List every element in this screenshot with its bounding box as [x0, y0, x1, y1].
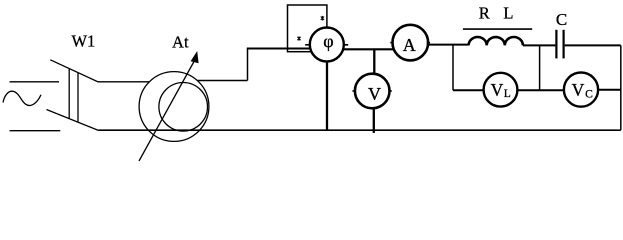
svg-text:V: V [368, 84, 381, 104]
wire capacitor to right edge [565, 44, 621, 46]
polarity asterisk upper-right [321, 16, 324, 21]
voltmeter V circle [355, 74, 390, 109]
transformer W1 core line 1 [68, 69, 70, 119]
voltmeter V top stem [373, 49, 375, 74]
svg-text:C: C [585, 88, 593, 100]
wire phase meter to ammeter [343, 48, 395, 50]
wire At output to step [197, 80, 247, 82]
wire VL to VC [517, 89, 565, 91]
bottom bus wire [98, 129, 620, 131]
svg-text:L: L [504, 88, 511, 100]
source bottom wire [10, 130, 61, 132]
wire to VL meter [453, 89, 485, 91]
svg-text:φ: φ [323, 31, 333, 51]
wire step to phase meter [247, 48, 311, 50]
svg-text:V: V [491, 80, 504, 100]
autotransformer At outer circle [139, 72, 209, 142]
wire ammeter to coil [428, 44, 469, 46]
source top wire [10, 81, 60, 83]
polarity asterisk lower-left [297, 36, 300, 41]
inductor coil [469, 37, 523, 45]
svg-text:V: V [572, 80, 585, 100]
svg-text:A: A [403, 35, 416, 55]
phase meter side stubs [305, 44, 348, 46]
wire VC to right edge [598, 89, 621, 91]
phase meter bottom stem [326, 62, 328, 131]
transformer W1 core line 2 [77, 73, 79, 123]
branch vertical at coil output [539, 45, 541, 90]
svg-text:At: At [172, 32, 189, 51]
phase meter circle [310, 28, 344, 62]
wire coil to capacitor [523, 44, 556, 46]
coil overline [463, 28, 532, 30]
transformer W1 top slant wire [50, 60, 149, 82]
voltmeter V bottom stem [373, 108, 375, 133]
svg-text:R: R [479, 3, 490, 22]
ammeter circle [393, 25, 429, 61]
autotransformer At arrow [139, 62, 194, 162]
svg-text:C: C [556, 10, 567, 29]
autotransformer At inner circle [159, 83, 208, 132]
transformer W1 lower slant wire [47, 110, 99, 131]
branch vertical at coil input [452, 45, 454, 91]
capacitor left plate [555, 30, 557, 59]
voltmeter V side stubs [352, 90, 391, 92]
voltmeter VC circle [564, 73, 598, 107]
right edge wire [620, 45, 622, 130]
svg-text:L: L [503, 3, 513, 22]
ammeter side stubs [390, 42, 430, 44]
capacitor right plate [562, 30, 564, 59]
voltmeter VL circle [484, 73, 518, 107]
wire step vertical [247, 49, 249, 81]
svg-text:W1: W1 [71, 32, 95, 51]
AC source tilde [3, 91, 41, 105]
wattmeter current-coil box [288, 5, 327, 52]
